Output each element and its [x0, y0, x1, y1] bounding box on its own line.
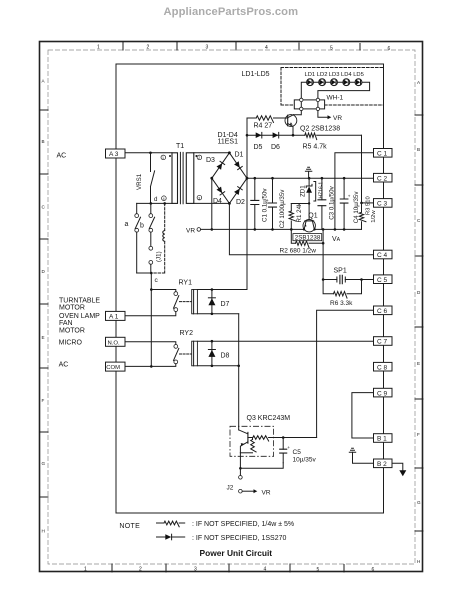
resistor R3 510 1/2w	[359, 196, 377, 229]
svg-text:F: F	[42, 398, 45, 403]
connector B1	[374, 434, 393, 443]
wire WH-1 left pin to Q2 collector	[300, 111, 302, 115]
wire R2/SP1 riser to VA rail	[322, 229, 324, 243]
wire A1 to RY1 contact	[125, 312, 176, 316]
transformer T1	[169, 143, 197, 204]
svg-text:Q2 2SB1238: Q2 2SB1238	[300, 126, 340, 133]
wire RY1 coil bottom to Q3 riser	[197, 313, 238, 316]
svg-text:D7: D7	[221, 301, 230, 308]
connector A1	[106, 311, 126, 320]
wire Q3 emitter to C5 bottom	[240, 463, 283, 469]
wire ZD1 to R1 link	[291, 202, 310, 204]
jumper J1 open link on b line	[149, 232, 162, 273]
grid reference numbers bottom	[84, 564, 375, 573]
svg-text:c: c	[155, 277, 159, 284]
svg-text:1/2w: 1/2w	[371, 210, 377, 223]
svg-text:: IF NOT SPECIFIED, 1SS270: : IF NOT SPECIFIED, 1SS270	[192, 535, 287, 542]
svg-text:: IF NOT SPECIFIED, 1/4w ± 5%: : IF NOT SPECIFIED, 1/4w ± 5%	[192, 521, 294, 528]
capacitor C2 1000u/35v	[266, 178, 286, 229]
svg-text:NOTE: NOTE	[119, 523, 140, 530]
svg-text:D4: D4	[213, 198, 222, 205]
wire T1 secondary bottom to bridge	[194, 202, 230, 204]
connector C3	[374, 199, 393, 208]
svg-text:B 1: B 1	[377, 436, 387, 443]
node VA label	[332, 236, 341, 243]
ground (left of B2)	[349, 448, 373, 463]
diode D4 (left-bottom edge)	[216, 187, 224, 195]
wire R5 riser down to C3 connector node	[361, 135, 363, 203]
wire RY2 coil top to connector C7	[197, 340, 373, 343]
svg-text:B: B	[42, 139, 45, 144]
svg-text:5: 5	[330, 46, 333, 52]
connector WH-1	[294, 95, 343, 111]
svg-text:1: 1	[162, 156, 164, 160]
svg-text:J2: J2	[227, 485, 234, 492]
NOTE legend	[119, 521, 294, 542]
svg-text:5: 5	[317, 567, 320, 573]
transistor Q2 2SB1238	[285, 115, 340, 136]
svg-text:3: 3	[194, 567, 197, 573]
svg-text:TURNTABLE: TURNTABLE	[59, 297, 100, 304]
diode D8	[208, 341, 229, 366]
connector C9	[374, 388, 393, 397]
svg-text:E: E	[42, 335, 45, 340]
switch b	[140, 203, 155, 232]
grid reference letters right margin	[415, 80, 423, 564]
connector C2	[374, 173, 393, 182]
LED LD1	[305, 72, 316, 86]
svg-text:C 8: C 8	[377, 364, 388, 371]
svg-text:H: H	[42, 529, 45, 534]
svg-text:2SB1238: 2SB1238	[295, 235, 321, 242]
svg-text:C 1: C 1	[377, 151, 388, 158]
svg-text:B 2: B 2	[377, 461, 387, 468]
wire switch chain down to COM	[150, 273, 153, 368]
svg-text:VRS1: VRS1	[136, 173, 143, 190]
wire common riser (bridge right vertex up to R4/D5 line and down to RY1 coil)	[246, 118, 257, 290]
svg-text:D8: D8	[221, 353, 230, 360]
T1 pin number (secondary bottom)	[197, 195, 202, 200]
svg-text:D: D	[417, 290, 421, 295]
svg-text:C: C	[42, 205, 46, 210]
wire C1 connector riser to VA rail	[335, 153, 374, 230]
bridge labels D1 D2 D3 D4	[206, 152, 245, 206]
resistor R5 4.7k	[303, 133, 362, 150]
outer border frame	[40, 42, 423, 572]
diode D1 (top-right edge)	[234, 161, 242, 169]
title Power Unit Circuit	[200, 548, 273, 558]
wire RY1 coil top to common riser	[197, 288, 247, 291]
resistor R4 27	[254, 116, 288, 130]
T1 pin label d	[154, 196, 158, 203]
svg-text:1: 1	[84, 567, 87, 573]
wire bridge bottom vertex to connector C4	[229, 203, 373, 254]
relay RY1 contact	[151, 280, 192, 312]
ground arrow (right of B2)	[392, 463, 406, 476]
svg-text:d: d	[154, 196, 158, 203]
switch a	[125, 203, 141, 273]
connector C5	[374, 275, 393, 284]
svg-text:A 1: A 1	[109, 314, 119, 321]
varistor VRS1	[136, 153, 154, 204]
svg-text:R5 4.7k: R5 4.7k	[303, 143, 328, 150]
wire Q3 emitter down	[239, 453, 242, 470]
svg-text:OVEN LAMP: OVEN LAMP	[59, 313, 100, 320]
wire T1 secondary top to bridge	[194, 152, 230, 154]
svg-text:VR: VR	[333, 115, 342, 122]
svg-text:F: F	[417, 432, 420, 437]
T1 pin number (secondary top)	[197, 155, 202, 160]
svg-text:RY1: RY1	[179, 280, 193, 287]
watermark AppliancePartsPros.com	[164, 6, 299, 18]
svg-text:G: G	[417, 500, 421, 505]
svg-text:C 4: C 4	[377, 252, 388, 259]
node VRS1 bottom junction	[150, 202, 153, 205]
svg-text:4: 4	[265, 45, 268, 51]
T1 pin number (primary top)	[161, 155, 166, 160]
zener diode ZD1 HZ16-1	[300, 178, 325, 203]
wire VR rail (raw negative, left part)	[201, 228, 304, 231]
diode D7	[208, 290, 229, 314]
wire SP1 riser	[322, 243, 324, 279]
diode D6	[271, 132, 280, 150]
svg-text:R2 680 1/2w: R2 680 1/2w	[280, 248, 317, 255]
svg-text:C 9: C 9	[377, 390, 388, 397]
T1 pin number (primary bottom)	[162, 196, 167, 201]
svg-text:RY2: RY2	[180, 330, 194, 337]
svg-text:A: A	[417, 80, 421, 85]
svg-text:a: a	[125, 221, 129, 228]
svg-text:Q1: Q1	[308, 213, 317, 220]
wire D5/D6 emitter line	[247, 134, 305, 137]
jumper J1 dashed alternative path	[151, 203, 164, 273]
svg-text:C1 0.1µ/50v: C1 0.1µ/50v	[262, 188, 269, 222]
svg-text:4: 4	[264, 567, 267, 573]
wire A3 to T1 primary top	[125, 152, 172, 154]
svg-text:C: C	[417, 218, 421, 223]
svg-text:LD3: LD3	[329, 72, 340, 78]
svg-text:2: 2	[139, 567, 142, 573]
relay RY1 coil	[192, 290, 198, 314]
LED LD2	[317, 72, 328, 86]
svg-text:ZD1: ZD1	[300, 185, 307, 197]
svg-text:VR: VR	[186, 227, 195, 234]
svg-text:C4 10µ/35v: C4 10µ/35v	[353, 191, 360, 224]
LED display dashed box	[242, 68, 384, 106]
left side labels TURNTABLE MOTOR OVEN LAMP FAN MOTOR	[59, 297, 100, 334]
svg-text:MOTOR: MOTOR	[59, 305, 85, 312]
connector N.O.	[106, 337, 126, 346]
svg-text:C3 0.1µ/50v: C3 0.1µ/50v	[328, 185, 335, 219]
bridge rectifier D1-D4 diamond	[210, 151, 248, 204]
svg-text:AC: AC	[59, 362, 69, 369]
node VR (left, rail)	[186, 227, 201, 234]
node J1 dashed branch junction	[163, 202, 166, 205]
connector COM	[106, 362, 126, 371]
wire VA rail (regulated, right part)	[315, 228, 362, 231]
wire COM to RY2 contact	[125, 364, 176, 367]
label D1-D4 11ES1	[218, 132, 239, 146]
svg-text:Power Unit Circuit: Power Unit Circuit	[200, 548, 273, 558]
transistor Q3 KRC243M (digital)	[230, 415, 317, 457]
svg-text:6: 6	[372, 567, 375, 573]
svg-text:LD2: LD2	[317, 72, 328, 78]
LED LD4	[341, 72, 352, 86]
node switch chain junction c	[137, 272, 159, 284]
LED LD3	[329, 72, 340, 86]
wire RY2 coil bottom to Q3 riser	[197, 365, 240, 368]
svg-text:D: D	[42, 269, 46, 274]
connector C8	[374, 362, 393, 371]
svg-text:+: +	[287, 445, 290, 450]
svg-text:1: 1	[97, 45, 100, 51]
svg-text:Q3 KRC243M: Q3 KRC243M	[247, 415, 291, 422]
transistor Q1 2SB1238	[303, 204, 318, 232]
wire relay coils riser down to Q3 collector	[238, 314, 240, 430]
grid reference letters left margin	[40, 79, 49, 534]
capacitor C3 0.1u/50v	[318, 178, 335, 229]
svg-text:+: +	[348, 194, 351, 199]
relay RY2 contact	[125, 330, 193, 364]
svg-text:2: 2	[147, 45, 150, 51]
svg-text:C5: C5	[293, 449, 302, 456]
capacitor C1 0.1u/50v	[251, 178, 269, 229]
connector C7	[374, 337, 393, 346]
LED LD5	[353, 72, 364, 86]
buzzer SP1	[322, 267, 374, 283]
svg-text:LD1: LD1	[305, 72, 316, 78]
svg-text:LD4: LD4	[341, 72, 352, 78]
diode D2 (bottom-right edge)	[234, 187, 242, 195]
main circuit box	[116, 64, 384, 513]
connector C1	[374, 149, 393, 158]
svg-text:VA: VA	[332, 236, 341, 243]
connector A3	[106, 149, 126, 158]
left side label AC (top)	[57, 153, 67, 160]
node C3 connector junction	[360, 202, 373, 205]
connector C6	[374, 306, 393, 315]
wire C9 connector loop to B1	[352, 393, 374, 438]
resistor R6 3.3k (parallel with SP1)	[323, 280, 361, 307]
svg-text:D1: D1	[235, 152, 244, 159]
svg-text:WH-1: WH-1	[327, 95, 344, 102]
svg-text:10µ/35v: 10µ/35v	[293, 456, 317, 463]
node VR (bottom arrow from J2)	[242, 489, 271, 496]
left side label AC (bottom)	[59, 362, 69, 369]
wire bridge left vertex down to VR rail	[211, 178, 214, 231]
svg-text:4: 4	[163, 197, 165, 201]
svg-text:H: H	[417, 559, 420, 564]
svg-text:R4 27: R4 27	[254, 122, 273, 129]
svg-text:G: G	[42, 461, 46, 466]
ground (top rail)	[305, 167, 311, 178]
wire LED row	[301, 82, 369, 100]
connector B2	[374, 459, 393, 468]
grid reference numbers top	[97, 42, 391, 53]
node VR (top, from WH-1 right pin)	[318, 111, 342, 123]
svg-text:D6: D6	[271, 144, 280, 151]
svg-text:E: E	[417, 361, 420, 366]
label box 2SB1238 (Q1)	[293, 234, 322, 242]
svg-text:D5: D5	[254, 144, 263, 151]
svg-text:B: B	[417, 147, 420, 152]
svg-text:(J1): (J1)	[155, 251, 162, 262]
svg-text:D2: D2	[236, 199, 245, 206]
svg-text:A: A	[42, 79, 46, 84]
svg-text:AC: AC	[57, 153, 67, 160]
svg-text:3: 3	[198, 196, 200, 200]
svg-text:2: 2	[198, 156, 200, 160]
svg-text:C 6: C 6	[377, 308, 388, 315]
svg-text:b: b	[140, 222, 144, 229]
svg-text:SP1: SP1	[334, 267, 347, 274]
svg-text:AppliancePartsPros.com: AppliancePartsPros.com	[164, 6, 299, 18]
svg-text:C 5: C 5	[377, 277, 388, 284]
svg-text:A 3: A 3	[109, 151, 119, 158]
wire C6 connector riser down to Q3 output	[317, 310, 374, 437]
connector C4	[374, 250, 393, 259]
left side label MICRO	[59, 340, 83, 347]
svg-text:FAN: FAN	[59, 320, 73, 327]
node VRS1 top junction	[149, 152, 152, 155]
svg-text:3: 3	[206, 45, 209, 51]
svg-text:COM: COM	[106, 365, 120, 371]
resistor R2 680 1/2w	[280, 229, 325, 254]
svg-text:MICRO: MICRO	[59, 340, 83, 347]
svg-text:6: 6	[388, 46, 391, 52]
node Q3 base network junction	[282, 436, 285, 439]
svg-text:R6 3.3k: R6 3.3k	[330, 300, 353, 307]
svg-text:C 3: C 3	[377, 201, 388, 208]
svg-text:VR: VR	[262, 490, 271, 497]
svg-text:C 2: C 2	[377, 175, 388, 182]
wire top common rail	[247, 177, 374, 180]
relay RY2 coil	[192, 341, 198, 366]
capacitor C4 10u/35v	[340, 178, 360, 229]
resistor R1 24k	[289, 202, 303, 229]
wire T1 primary bottom to switches	[137, 202, 172, 204]
svg-text:+: +	[266, 198, 269, 203]
diode D3 (left-top edge)	[216, 161, 224, 169]
svg-text:R1 24k: R1 24k	[296, 202, 303, 223]
svg-text:T1: T1	[176, 143, 184, 150]
svg-text:11ES1: 11ES1	[218, 139, 239, 146]
svg-text:N.O.: N.O.	[108, 340, 120, 346]
svg-text:LD5: LD5	[353, 72, 364, 78]
svg-text:MOTOR: MOTOR	[59, 328, 85, 335]
svg-text:C 7: C 7	[377, 339, 388, 346]
diode D5	[254, 132, 263, 150]
svg-text:D3: D3	[206, 157, 215, 164]
capacitor C5 10u/35v	[280, 438, 317, 464]
svg-text:LD1-LD5: LD1-LD5	[242, 71, 270, 78]
svg-text:C2 1000µ/35v: C2 1000µ/35v	[279, 189, 286, 229]
jumper J2	[227, 468, 243, 493]
